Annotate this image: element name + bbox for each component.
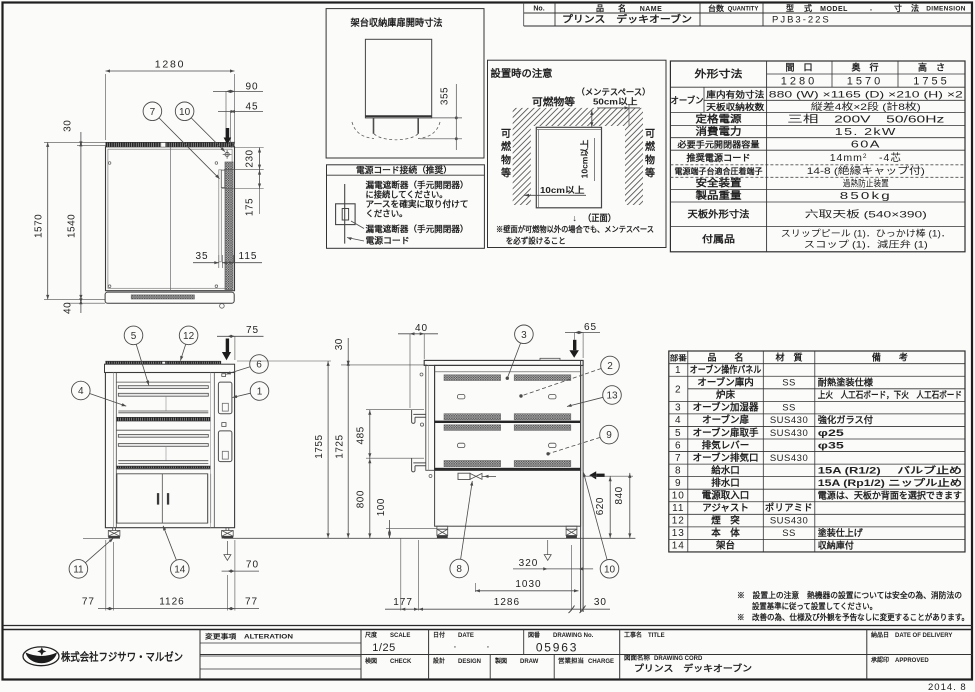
svg-text:1755: 1755 xyxy=(314,434,325,458)
svg-text:三相 200V 50/60Hz: 三相 200V 50/60Hz xyxy=(787,113,944,126)
svg-text:納品日: 納品日 xyxy=(871,631,889,639)
svg-text:定格電源: 定格電源 xyxy=(696,113,742,126)
svg-text:φ35: φ35 xyxy=(818,440,844,450)
svg-text:10cm以上: 10cm以上 xyxy=(540,185,585,195)
svg-text:炉床: 炉床 xyxy=(716,389,736,401)
svg-text:355: 355 xyxy=(440,87,451,105)
svg-text:4: 4 xyxy=(675,415,682,426)
svg-text:等: 等 xyxy=(501,167,511,180)
svg-text:·: · xyxy=(486,641,490,653)
svg-text:に接続してください。: に接続してください。 xyxy=(366,190,448,200)
svg-text:電源取入口: 電源取入口 xyxy=(702,490,750,502)
svg-text:給水口: 給水口 xyxy=(711,464,740,476)
svg-text:オーブン操作パネル: オーブン操作パネル xyxy=(690,364,762,376)
svg-text:1126: 1126 xyxy=(159,597,185,608)
svg-text:840: 840 xyxy=(614,486,625,504)
svg-text:φ25: φ25 xyxy=(818,428,844,438)
svg-text:SS: SS xyxy=(782,378,796,389)
svg-text:485: 485 xyxy=(356,426,367,444)
svg-text:PJB3-22S: PJB3-22S xyxy=(772,15,831,26)
svg-text:を必ず設けること: を必ず設けること xyxy=(506,236,566,246)
svg-text:本 体: 本 体 xyxy=(711,527,740,539)
svg-text:オーブン: オーブン xyxy=(671,95,704,106)
svg-text:承認印: 承認印 xyxy=(871,656,889,664)
svg-text:※ 改善の為、仕様及び外観を予告なしに変更することがあります: ※ 改善の為、仕様及び外観を予告なしに変更することがあります。 xyxy=(737,612,969,622)
svg-text:奥 行: 奥 行 xyxy=(850,62,878,73)
svg-text:12: 12 xyxy=(183,331,195,342)
svg-text:日付: 日付 xyxy=(433,631,445,639)
svg-text:DRAWING No.: DRAWING No. xyxy=(553,633,594,639)
svg-text:可: 可 xyxy=(645,128,655,140)
svg-text:CHECK: CHECK xyxy=(390,659,412,665)
svg-text:オーブン扉: オーブン扉 xyxy=(702,414,749,426)
svg-text:5: 5 xyxy=(675,428,682,439)
svg-text:QUANTITY: QUANTITY xyxy=(728,7,759,13)
svg-text:CHARGE: CHARGE xyxy=(588,659,614,665)
svg-text:3: 3 xyxy=(675,403,682,414)
svg-text:ポリアミド: ポリアミド xyxy=(765,502,813,514)
svg-text:35: 35 xyxy=(195,251,208,262)
svg-text:↓: ↓ xyxy=(572,213,577,223)
svg-text:APPROVED: APPROVED xyxy=(895,658,929,664)
svg-text:株式会社フジサワ・マルゼン: 株式会社フジサワ・マルゼン xyxy=(61,650,183,664)
svg-text:4: 4 xyxy=(78,386,84,397)
svg-text:1570: 1570 xyxy=(34,214,45,238)
svg-text:2: 2 xyxy=(675,385,682,396)
svg-text:収納庫付: 収納庫付 xyxy=(818,540,854,551)
svg-text:電源は、天板か背面を選択できます: 電源は、天板か背面を選択できます xyxy=(818,490,962,501)
svg-text:スリップピール (1)．ひっかけ棒 (1)．: スリップピール (1)．ひっかけ棒 (1)． xyxy=(781,228,951,239)
svg-text:880 (W) ×1165 (D) ×210 (H) ×2: 880 (W) ×1165 (D) ×210 (H) ×2 xyxy=(769,90,963,101)
svg-text:変更事項 ALTERATION: 変更事項 ALTERATION xyxy=(205,632,293,641)
svg-text:架台: 架台 xyxy=(715,540,736,552)
svg-text:SUS430: SUS430 xyxy=(770,453,808,464)
svg-text:320: 320 xyxy=(519,558,539,569)
svg-text:縦差4枚×2段 (計8枚): 縦差4枚×2段 (計8枚) xyxy=(811,101,921,113)
svg-text:強化ガラス付: 強化ガラス付 xyxy=(818,414,873,425)
svg-text:天板収納枚数: 天板収納枚数 xyxy=(706,102,765,112)
svg-text:13: 13 xyxy=(606,391,618,402)
svg-text:品: 品 xyxy=(596,4,604,13)
svg-text:アジャスト: アジャスト xyxy=(702,503,749,514)
svg-text:漏電遮断器（手元開閉器）: 漏電遮断器（手元開閉器） xyxy=(366,224,469,234)
svg-text:1570: 1570 xyxy=(847,76,883,88)
svg-text:塗装仕上げ: 塗装仕上げ xyxy=(818,527,864,538)
svg-text:オーブン排気口: オーブン排気口 xyxy=(693,452,759,464)
svg-text:外形寸法: 外形寸法 xyxy=(693,68,742,81)
svg-text:40: 40 xyxy=(63,302,74,314)
svg-text:※壁面が可燃物以外の場合でも、メンテスペース: ※壁面が可燃物以外の場合でも、メンテスペース xyxy=(496,224,654,234)
svg-text:※ 設置上の注意 熱機器の設置については安全の為、消防法の: ※ 設置上の注意 熱機器の設置については安全の為、消防法の xyxy=(737,590,962,600)
svg-text:燃: 燃 xyxy=(645,140,656,153)
svg-text:11: 11 xyxy=(73,565,84,576)
svg-text:高 さ: 高 さ xyxy=(918,62,945,73)
svg-text:付属品: 付属品 xyxy=(702,234,735,246)
svg-text:45: 45 xyxy=(246,102,259,113)
svg-text:6: 6 xyxy=(675,440,682,451)
svg-text:設置基準に従って設置してください。: 設置基準に従って設置してください。 xyxy=(752,601,877,611)
svg-text:14-8 (絶縁キャップ付): 14-8 (絶縁キャップ付) xyxy=(807,165,925,177)
svg-text:設置時の注意: 設置時の注意 xyxy=(491,67,553,80)
svg-text:安全装置: 安全装置 xyxy=(696,177,742,190)
svg-text:検図: 検図 xyxy=(365,657,377,665)
svg-text:2: 2 xyxy=(607,361,613,372)
svg-text:物: 物 xyxy=(501,153,511,166)
svg-text:9: 9 xyxy=(606,430,612,441)
svg-text:60A: 60A xyxy=(851,139,881,151)
svg-text:DIMENSION: DIMENSION xyxy=(926,6,966,13)
svg-text:法: 法 xyxy=(911,3,919,13)
svg-text:30: 30 xyxy=(594,597,607,608)
svg-text:台数: 台数 xyxy=(708,3,725,13)
svg-text:230: 230 xyxy=(244,149,255,167)
svg-text:177: 177 xyxy=(393,597,413,608)
svg-text:排気レバー: 排気レバー xyxy=(702,439,750,451)
svg-text:可燃物等: 可燃物等 xyxy=(532,96,575,109)
svg-text:1725: 1725 xyxy=(334,434,345,458)
svg-text:煙 突: 煙 突 xyxy=(711,515,740,527)
svg-text:15A (R1/2) バルブ止め: 15A (R1/2) バルブ止め xyxy=(818,464,962,475)
svg-text:設計: 設計 xyxy=(433,657,445,665)
svg-text:（正面）: （正面） xyxy=(583,213,616,223)
svg-text:7: 7 xyxy=(150,107,156,118)
svg-text:電源コード: 電源コード xyxy=(366,236,410,246)
svg-text:1030: 1030 xyxy=(515,579,541,590)
svg-text:製品重量: 製品重量 xyxy=(694,189,741,202)
svg-text:1280: 1280 xyxy=(155,59,186,71)
svg-text:77: 77 xyxy=(245,597,258,608)
svg-text:3: 3 xyxy=(521,330,527,341)
svg-text:8: 8 xyxy=(456,564,462,575)
svg-text:備 考: 備 考 xyxy=(872,352,908,363)
svg-text:品 名: 品 名 xyxy=(708,352,744,363)
svg-text:65: 65 xyxy=(584,322,597,333)
svg-text:1540: 1540 xyxy=(67,214,78,238)
svg-text:上火 人工石ボード，下火 人工石ボード: 上火 人工石ボード，下火 人工石ボード xyxy=(818,389,962,400)
svg-text:5: 5 xyxy=(131,331,137,342)
svg-text:必要手元開閉器容量: 必要手元開閉器容量 xyxy=(676,140,760,150)
svg-text:77: 77 xyxy=(82,597,95,608)
svg-text:DESIGN: DESIGN xyxy=(458,659,481,665)
svg-text:50cm以上: 50cm以上 xyxy=(593,96,638,106)
svg-text:オーブン加湿器: オーブン加湿器 xyxy=(693,402,759,414)
svg-text:SCALE: SCALE xyxy=(390,633,410,639)
svg-text:TITLE: TITLE xyxy=(648,633,665,639)
svg-text:.: . xyxy=(870,4,872,13)
svg-text:1286: 1286 xyxy=(494,597,520,608)
svg-text:名: 名 xyxy=(618,3,626,13)
svg-text:製図: 製図 xyxy=(494,657,507,665)
svg-text:間 口: 間 口 xyxy=(785,63,812,73)
svg-text:1755: 1755 xyxy=(913,76,949,88)
svg-text:SUS430: SUS430 xyxy=(770,516,808,527)
svg-text:75: 75 xyxy=(246,325,259,336)
svg-text:1: 1 xyxy=(675,365,682,376)
svg-text:800: 800 xyxy=(356,490,367,508)
svg-text:尺度: 尺度 xyxy=(365,631,378,639)
svg-text:NAME: NAME xyxy=(640,6,663,13)
svg-text:90: 90 xyxy=(246,82,259,93)
svg-text:11: 11 xyxy=(672,503,684,514)
svg-text:燃: 燃 xyxy=(501,140,512,153)
svg-text:寸: 寸 xyxy=(894,3,902,13)
svg-text:ください。: ください。 xyxy=(366,209,408,219)
svg-text:図番: 図番 xyxy=(528,631,541,639)
svg-text:15. 2kW: 15. 2kW xyxy=(835,126,897,138)
svg-text:天板外形寸法: 天板外形寸法 xyxy=(688,209,751,221)
svg-text:10: 10 xyxy=(604,564,616,575)
svg-text:14: 14 xyxy=(672,541,685,552)
svg-text:·: · xyxy=(453,641,457,653)
svg-text:プリンス デッキオーブン: プリンス デッキオーブン xyxy=(634,663,752,674)
svg-text:14: 14 xyxy=(174,565,186,576)
svg-text:175: 175 xyxy=(244,198,255,216)
svg-text:DATE: DATE xyxy=(458,633,474,639)
svg-text:アースを確実に取り付けて: アースを確実に取り付けて xyxy=(366,199,469,209)
svg-text:850kg: 850kg xyxy=(840,190,892,202)
svg-text:営業担当: 営業担当 xyxy=(558,657,584,665)
svg-text:1280: 1280 xyxy=(781,76,817,88)
svg-text:庫内有効寸法: 庫内有効寸法 xyxy=(706,89,765,99)
svg-text:図面名称: 図面名称 xyxy=(624,654,650,662)
svg-text:2014. 8: 2014. 8 xyxy=(928,682,967,692)
svg-text:漏電遮断器（手元開閉器）: 漏電遮断器（手元開閉器） xyxy=(366,180,469,190)
svg-text:15A (Rp1/2) ニップル止め: 15A (Rp1/2) ニップル止め xyxy=(818,477,962,488)
svg-text:7: 7 xyxy=(675,453,682,464)
svg-text:MODEL: MODEL xyxy=(820,6,848,13)
svg-text:オーブン庫内: オーブン庫内 xyxy=(697,377,753,389)
svg-text:可: 可 xyxy=(501,128,511,140)
svg-text:6: 6 xyxy=(256,360,262,371)
svg-text:物: 物 xyxy=(645,153,655,166)
svg-text:耐熱塗装仕様: 耐熱塗装仕様 xyxy=(818,377,874,388)
svg-text:消費電力: 消費電力 xyxy=(696,125,742,138)
svg-text:架台収納庫扉開時寸法: 架台収納庫扉開時寸法 xyxy=(350,17,443,29)
svg-text:620: 620 xyxy=(595,497,606,515)
svg-text:工事名: 工事名 xyxy=(624,631,642,639)
svg-text:10: 10 xyxy=(179,107,191,118)
svg-text:30: 30 xyxy=(334,338,345,350)
svg-text:等: 等 xyxy=(645,167,655,180)
svg-text:100: 100 xyxy=(376,498,387,516)
svg-text:SS: SS xyxy=(782,403,796,414)
svg-text:電源コード接続（推奨）: 電源コード接続（推奨） xyxy=(356,165,452,175)
svg-text:30: 30 xyxy=(63,120,74,132)
svg-text:プリンス デッキオーブン: プリンス デッキオーブン xyxy=(562,14,692,26)
svg-text:型: 型 xyxy=(786,3,794,13)
svg-text:推奨電源コード: 推奨電源コード xyxy=(687,152,751,163)
svg-text:115: 115 xyxy=(239,251,258,262)
svg-text:式: 式 xyxy=(804,3,812,13)
svg-text:1/25: 1/25 xyxy=(372,642,395,654)
svg-text:1: 1 xyxy=(257,387,263,398)
svg-text:DRAWING CORD: DRAWING CORD xyxy=(654,656,703,662)
svg-text:9: 9 xyxy=(675,478,682,489)
svg-text:六取天板 (540×390): 六取天板 (540×390) xyxy=(805,209,927,221)
svg-text:10cm以上: 10cm以上 xyxy=(580,139,590,178)
svg-text:オーブン扉取手: オーブン扉取手 xyxy=(693,427,759,439)
svg-text:過熱防止装置: 過熱防止装置 xyxy=(843,178,889,189)
svg-text:No.: No. xyxy=(533,6,544,13)
svg-text:40: 40 xyxy=(415,323,428,334)
svg-text:8: 8 xyxy=(675,465,682,476)
svg-text:12: 12 xyxy=(672,516,685,527)
svg-text:材 質: 材 質 xyxy=(775,352,803,363)
svg-text:電源端子台適合圧着端子: 電源端子台適合圧着端子 xyxy=(675,166,763,176)
svg-text:70: 70 xyxy=(246,560,259,571)
svg-text:SS: SS xyxy=(782,528,796,539)
svg-text:部番: 部番 xyxy=(670,353,688,363)
svg-text:SUS430: SUS430 xyxy=(770,415,808,426)
svg-text:DRAW: DRAW xyxy=(520,659,539,665)
svg-text:排水口: 排水口 xyxy=(711,477,740,489)
svg-text:スコップ (1)．減圧弁 (1): スコップ (1)．減圧弁 (1) xyxy=(804,239,928,250)
svg-text:13: 13 xyxy=(672,528,685,539)
svg-text:DATE OF DELIVERY: DATE OF DELIVERY xyxy=(895,633,952,639)
svg-text:10: 10 xyxy=(672,491,685,502)
svg-text:05963: 05963 xyxy=(536,641,578,655)
svg-text:SUS430: SUS430 xyxy=(770,428,808,439)
